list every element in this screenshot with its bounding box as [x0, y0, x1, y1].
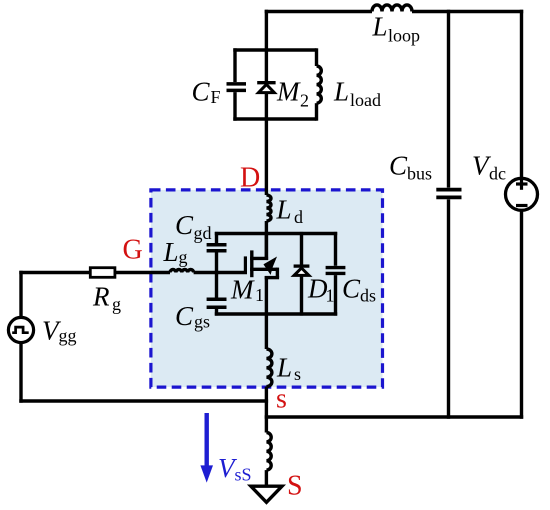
svg-text:loop: loop: [388, 26, 420, 46]
svg-text:C: C: [389, 151, 408, 181]
svg-text:s: s: [294, 364, 301, 384]
svg-text:C: C: [192, 76, 211, 106]
svg-text:gs: gs: [194, 312, 210, 332]
svg-text:ds: ds: [360, 285, 376, 305]
svg-text:g: g: [179, 247, 188, 267]
svg-text:s: s: [276, 384, 287, 415]
svg-text:L: L: [276, 352, 292, 382]
svg-text:L: L: [333, 77, 349, 107]
svg-text:gd: gd: [194, 223, 212, 243]
svg-text:M: M: [230, 275, 255, 305]
svg-text:gg: gg: [59, 326, 77, 346]
svg-text:C: C: [175, 210, 194, 240]
svg-text:sS: sS: [235, 465, 252, 485]
svg-text:load: load: [350, 90, 381, 110]
svg-text:F: F: [211, 87, 221, 107]
svg-text:R: R: [92, 282, 110, 312]
svg-text:g: g: [112, 294, 121, 314]
svg-text:1: 1: [326, 285, 335, 305]
svg-text:bus: bus: [407, 164, 432, 184]
svg-text:L: L: [276, 195, 292, 225]
svg-text:L: L: [163, 237, 179, 267]
svg-text:C: C: [342, 273, 361, 303]
svg-text:d: d: [294, 207, 303, 227]
svg-text:D: D: [240, 162, 260, 193]
svg-text:C: C: [175, 301, 194, 331]
svg-text:dc: dc: [489, 164, 506, 184]
svg-text:L: L: [372, 12, 388, 42]
svg-text:M: M: [276, 77, 301, 107]
svg-text:S: S: [287, 470, 303, 501]
svg-text:2: 2: [300, 91, 309, 111]
svg-text:1: 1: [255, 285, 264, 305]
svg-text:G: G: [123, 235, 143, 266]
